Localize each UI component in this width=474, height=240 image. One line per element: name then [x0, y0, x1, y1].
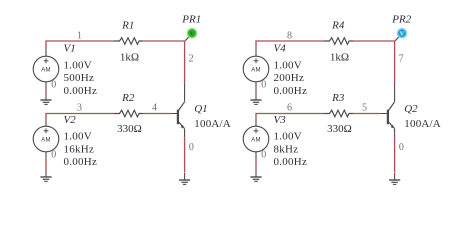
- svg-text:1kΩ: 1kΩ: [120, 51, 139, 63]
- svg-text:Q2: Q2: [404, 103, 418, 115]
- svg-text:0: 0: [189, 142, 194, 153]
- svg-text:R1: R1: [121, 20, 134, 32]
- svg-text:1.00V: 1.00V: [274, 131, 302, 143]
- svg-text:5: 5: [362, 103, 367, 114]
- svg-text:4: 4: [152, 103, 157, 114]
- svg-text:6: 6: [287, 102, 292, 113]
- svg-text:330Ω: 330Ω: [117, 123, 142, 135]
- svg-text:1.00V: 1.00V: [274, 60, 302, 72]
- svg-text:1: 1: [77, 30, 82, 41]
- svg-text:V2: V2: [64, 114, 77, 126]
- svg-text:AM: AM: [41, 67, 51, 73]
- svg-text:Q1: Q1: [194, 103, 207, 115]
- svg-text:PR2: PR2: [391, 13, 411, 25]
- svg-text:AM: AM: [251, 67, 261, 73]
- svg-text:AM: AM: [41, 137, 51, 143]
- svg-text:0.00Hz: 0.00Hz: [274, 156, 308, 168]
- svg-text:330Ω: 330Ω: [327, 123, 352, 135]
- svg-text:1kΩ: 1kΩ: [330, 51, 349, 63]
- svg-text:0.00Hz: 0.00Hz: [64, 156, 98, 168]
- svg-text:100A/A: 100A/A: [194, 118, 231, 130]
- svg-text:V1: V1: [64, 42, 76, 54]
- svg-text:0: 0: [399, 142, 404, 153]
- svg-text:0: 0: [51, 80, 56, 91]
- svg-text:0.00Hz: 0.00Hz: [274, 85, 308, 97]
- svg-text:AM: AM: [251, 137, 261, 143]
- svg-text:V4: V4: [274, 42, 287, 54]
- svg-text:16kHz: 16kHz: [64, 143, 95, 155]
- svg-text:R3: R3: [331, 92, 345, 104]
- svg-text:0: 0: [261, 150, 266, 161]
- svg-text:R4: R4: [331, 20, 345, 32]
- svg-text:100A/A: 100A/A: [404, 118, 441, 130]
- svg-text:0: 0: [261, 80, 266, 91]
- svg-text:V: V: [190, 31, 195, 38]
- svg-text:PR1: PR1: [181, 13, 201, 25]
- svg-text:0.00Hz: 0.00Hz: [64, 85, 98, 97]
- svg-text:1.00V: 1.00V: [64, 131, 92, 143]
- svg-text:2: 2: [189, 53, 194, 64]
- svg-text:7: 7: [399, 53, 404, 64]
- svg-text:500Hz: 500Hz: [64, 72, 95, 84]
- svg-text:R2: R2: [121, 92, 135, 104]
- svg-text:V: V: [400, 31, 405, 38]
- svg-text:8: 8: [287, 30, 292, 41]
- svg-text:3: 3: [77, 102, 82, 113]
- svg-text:8kHz: 8kHz: [274, 143, 299, 155]
- svg-text:1.00V: 1.00V: [64, 60, 92, 72]
- svg-text:200Hz: 200Hz: [274, 72, 305, 84]
- svg-text:V3: V3: [274, 114, 287, 126]
- svg-text:0: 0: [51, 150, 56, 161]
